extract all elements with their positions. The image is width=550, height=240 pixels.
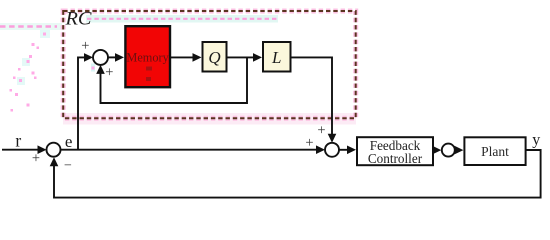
- wire r input: [2, 145, 47, 154]
- wire Q to L: [228, 53, 263, 62]
- artifact pink speckles: [10, 30, 96, 112]
- artifact cyan band left: [0, 23, 62, 30]
- svg-text:L: L: [271, 48, 281, 67]
- svg-text:Memory: Memory: [126, 50, 169, 64]
- svg-text:Q: Q: [208, 48, 220, 67]
- artifact cyan band top: [86, 15, 278, 23]
- svg-text:+: +: [32, 150, 40, 166]
- wire L down to S2: [292, 57, 337, 142]
- block L: [263, 42, 291, 72]
- wire inner feedback loop: [96, 57, 247, 103]
- svg-text:RC: RC: [64, 10, 92, 30]
- dashed box RC: [63, 11, 356, 118]
- wire N1 to Plant: [454, 146, 463, 155]
- svg-text:y: y: [532, 131, 540, 148]
- block Memory: [125, 26, 170, 87]
- artifact pink dashed line left: [0, 25, 57, 27]
- artifact pink dashed line top: [87, 18, 277, 20]
- svg-text:−: −: [64, 159, 72, 174]
- svg-text:Plant: Plant: [481, 144, 509, 159]
- svg-text:+: +: [317, 122, 325, 138]
- svg-text:+: +: [81, 38, 89, 54]
- block Feedback Controller: [357, 137, 433, 166]
- node N1: [442, 144, 455, 157]
- svg-text:+: +: [105, 64, 113, 80]
- block Plant: [464, 137, 525, 165]
- block Q: [203, 42, 227, 72]
- svg-text:r: r: [15, 130, 21, 150]
- wire Feedback Controller to node N1: [432, 146, 441, 155]
- summing junction S2: [325, 143, 339, 157]
- wire S3 to Memory: [108, 53, 124, 62]
- summing junction S1: [47, 143, 61, 157]
- wire branch up to S3: [78, 53, 93, 150]
- wire Plant output and feedback to S1: [50, 150, 541, 198]
- svg-text:Controller: Controller: [368, 151, 423, 166]
- svg-text:+: +: [305, 135, 313, 151]
- wire Memory to Q: [171, 53, 202, 62]
- wire S1 to S2: [61, 145, 326, 154]
- artifact pink band bottom: [63, 113, 356, 125]
- wire S2 to Feedback Controller: [339, 146, 356, 155]
- svg-text:e: e: [65, 132, 73, 151]
- summing junction S3: [93, 50, 108, 65]
